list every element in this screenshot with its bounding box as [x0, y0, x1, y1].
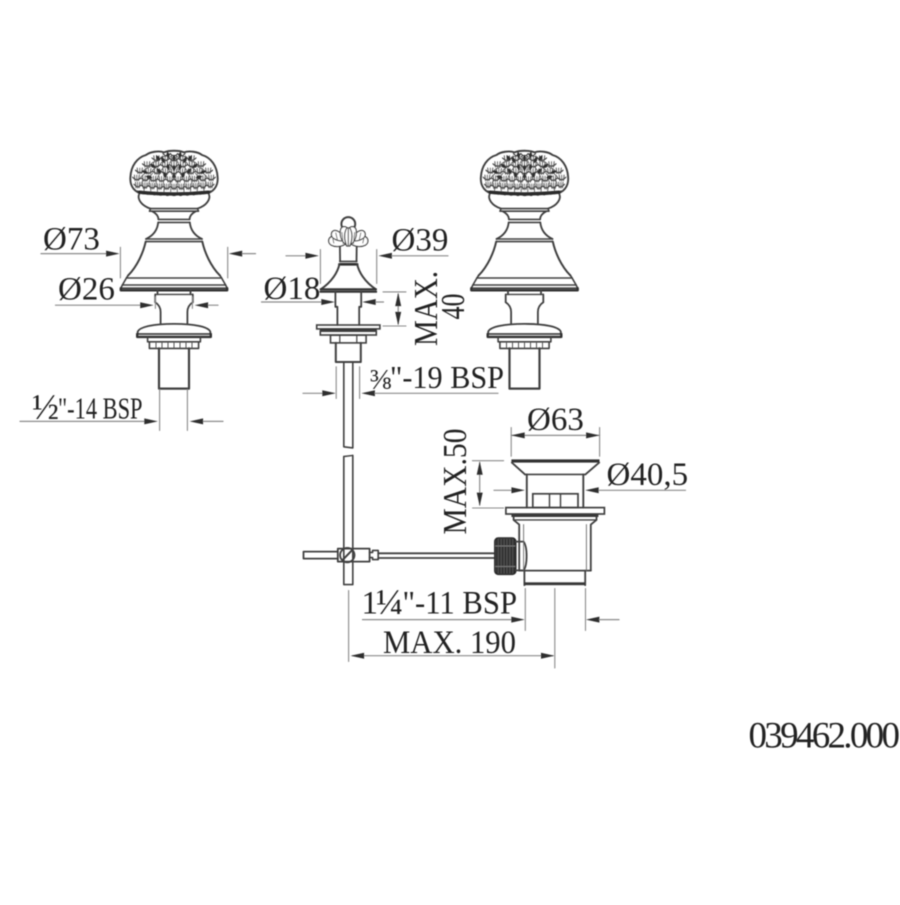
- svg-text:"-11 BSP: "-11 BSP: [403, 586, 518, 622]
- svg-text:"-14 BSP: "-14 BSP: [58, 391, 143, 426]
- svg-text:¼: ¼: [376, 582, 403, 622]
- svg-text:Ø26: Ø26: [58, 271, 115, 307]
- svg-text:Ø63: Ø63: [527, 402, 584, 438]
- svg-text:Ø40,5: Ø40,5: [607, 457, 689, 493]
- svg-text:MAX.50: MAX.50: [437, 429, 474, 535]
- svg-text:Ø39: Ø39: [392, 223, 449, 259]
- svg-text:039462.000: 039462.000: [749, 716, 900, 757]
- svg-text:40: 40: [435, 294, 472, 320]
- svg-text:"-19 BSP: "-19 BSP: [390, 359, 504, 395]
- svg-text:Ø73: Ø73: [43, 222, 100, 258]
